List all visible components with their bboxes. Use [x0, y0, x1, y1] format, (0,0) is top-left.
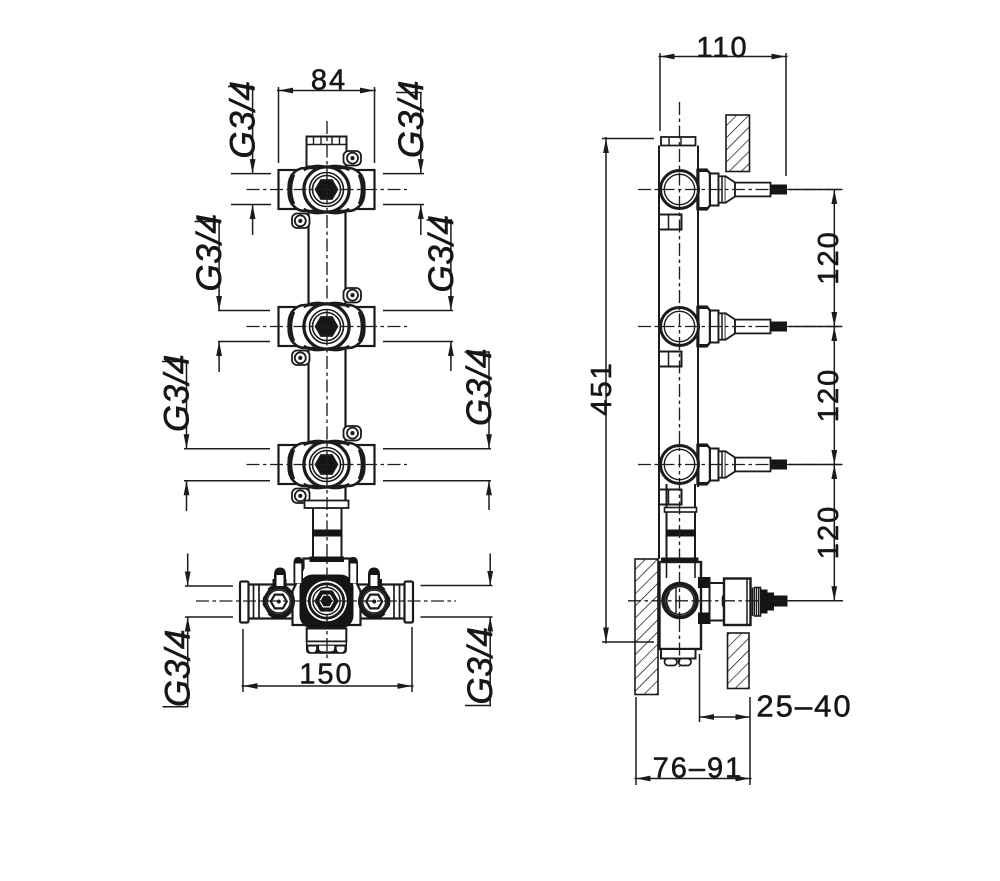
svg-text:G3/4: G3/4: [159, 629, 198, 707]
svg-text:110: 110: [696, 32, 748, 64]
svg-text:150: 150: [299, 659, 353, 691]
svg-text:G3/4: G3/4: [461, 627, 500, 705]
svg-text:120: 120: [813, 368, 845, 422]
svg-text:120: 120: [813, 230, 845, 284]
svg-text:G3/4: G3/4: [422, 215, 461, 293]
svg-text:76–91: 76–91: [653, 753, 744, 785]
svg-text:G3/4: G3/4: [392, 80, 431, 158]
svg-text:G3/4: G3/4: [158, 354, 197, 432]
svg-text:84: 84: [311, 65, 347, 97]
svg-text:25–40: 25–40: [756, 689, 852, 724]
svg-text:120: 120: [813, 505, 845, 559]
svg-text:G3/4: G3/4: [190, 214, 229, 292]
svg-text:G3/4: G3/4: [460, 348, 499, 426]
svg-text:451: 451: [586, 361, 618, 415]
svg-text:G3/4: G3/4: [224, 81, 263, 159]
